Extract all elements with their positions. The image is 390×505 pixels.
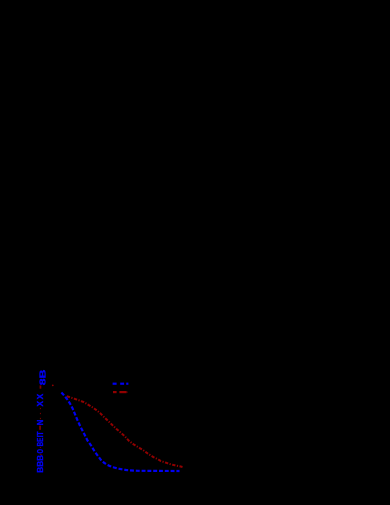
svg-text:O: O <box>36 449 45 454</box>
svg-text:IT: IT <box>36 431 45 437</box>
label red mark (y-run) <box>39 426 41 430</box>
y-axis label (rotated, blue with dark-red parts) <box>36 369 47 472</box>
svg-text:. . .: . . . <box>36 407 43 420</box>
svg-text:X: X <box>36 400 45 406</box>
svg-text:BBB: BBB <box>36 455 45 473</box>
svg-text:X: X <box>36 393 45 399</box>
legend: red dash-dot sample <box>113 391 127 393</box>
red dash-dot curve <box>67 396 183 467</box>
svg-text:BE: BE <box>36 437 45 446</box>
red curve start dot <box>52 385 54 387</box>
blue dashed curve <box>61 393 179 472</box>
svg-text:8B: 8B <box>39 369 48 385</box>
legend: blue dashed sample <box>113 383 129 385</box>
label red mark (paren-run) <box>40 385 42 388</box>
